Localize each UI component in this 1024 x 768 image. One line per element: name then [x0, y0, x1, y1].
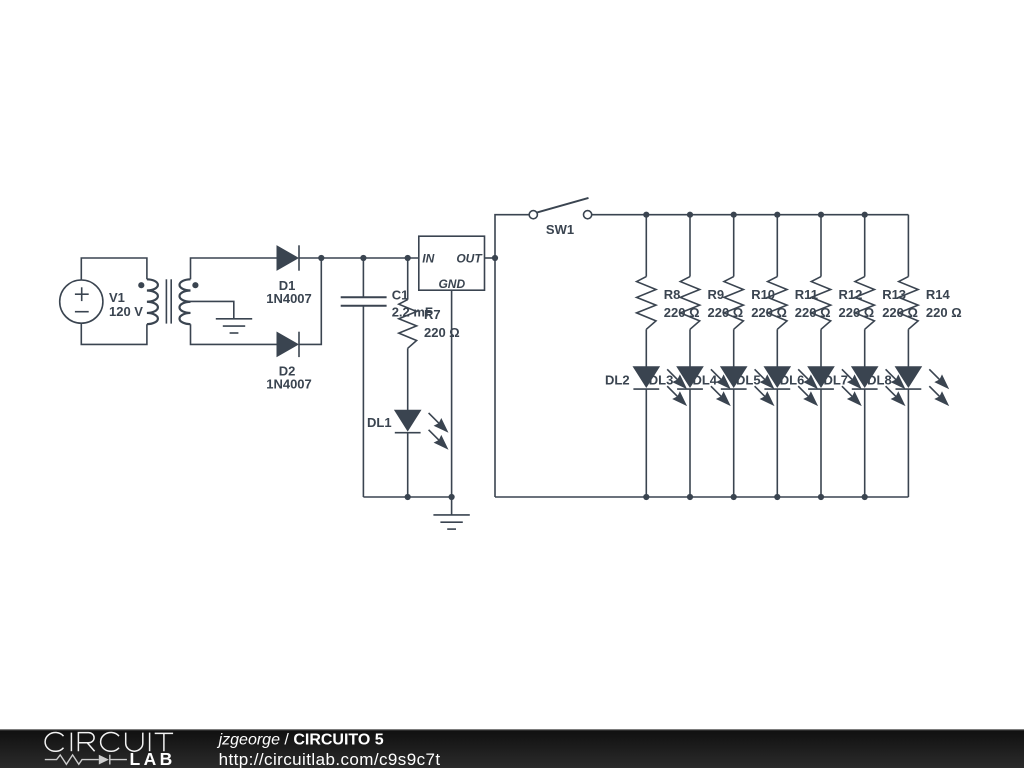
svg-text:R9: R9: [708, 287, 725, 302]
LED DL8: [896, 367, 950, 406]
wire branch 7 bottom: [907, 389, 909, 497]
wire branch 7 top: [907, 215, 909, 277]
wire bottom rail left section: [363, 496, 451, 498]
svg-text:SW1: SW1: [546, 222, 574, 237]
svg-text:DL5: DL5: [736, 373, 761, 388]
node bottom rail branch 5: [818, 494, 824, 500]
node bottom rail branch 6: [862, 494, 868, 500]
LED DL3: [677, 367, 731, 406]
svg-text:LAB: LAB: [130, 749, 176, 768]
wire transformer center tap: [191, 301, 234, 318]
wire R7 top stub: [407, 258, 409, 300]
wire ground stub: [451, 497, 453, 515]
LED DL6: [808, 367, 862, 406]
wire V1 top to transformer primary: [81, 258, 147, 280]
resistor R12: [811, 277, 830, 330]
svg-text:IN: IN: [422, 251, 434, 265]
svg-text:R11: R11: [795, 287, 818, 302]
wire branch 1 middle: [645, 329, 647, 366]
CircuitLab logo: CIRCUIT wordmark: [45, 733, 173, 752]
svg-text:OUT: OUT: [456, 251, 483, 265]
resistor R11: [768, 277, 787, 330]
wire secondary top to D1 anode: [191, 258, 278, 279]
capacitor C1: [341, 297, 387, 306]
svg-text:1N4007: 1N4007: [266, 377, 312, 392]
CircuitLab logo: resistor-diode squiggle: [45, 755, 127, 765]
wire branch 2 bottom: [689, 389, 691, 497]
node DL1 bottom junction: [405, 494, 411, 500]
voltage regulator U1 box: [419, 236, 485, 290]
wire branch 5 middle: [820, 329, 822, 366]
wire regulator GND pin down: [451, 290, 453, 497]
LED DL5: [764, 367, 818, 406]
wire branch 3 top: [733, 215, 735, 277]
node R7 top junction: [405, 255, 411, 261]
node top rail branch 5: [818, 212, 824, 218]
svg-text:R8: R8: [664, 287, 681, 302]
resistor R8: [637, 277, 656, 330]
svg-text:DL8: DL8: [867, 373, 892, 388]
wire branch 5 bottom: [820, 389, 822, 497]
wire C1 bottom stub: [362, 306, 364, 497]
wire branch 3 bottom: [733, 389, 735, 497]
wire top rail LED array: [592, 214, 909, 216]
svg-text:DL1: DL1: [367, 415, 392, 430]
node top rail branch 6: [862, 212, 868, 218]
svg-text:220 Ω: 220 Ω: [926, 305, 962, 320]
wire D2 cathode up to node: [299, 258, 321, 344]
LED DL4: [721, 367, 775, 406]
resistor R14: [899, 277, 918, 330]
wire C1 top stub: [362, 258, 364, 297]
svg-text:1N4007: 1N4007: [266, 291, 312, 306]
transformer secondary phase dot: [192, 282, 198, 288]
node top rail branch 2: [687, 212, 693, 218]
ground (transformer center tap): [216, 319, 252, 333]
wire branch 2 middle: [689, 329, 691, 366]
wire branch 1 bottom: [645, 389, 647, 497]
svg-text:120 V: 120 V: [109, 304, 143, 319]
node GND junction: [449, 494, 455, 500]
svg-text:DL4: DL4: [692, 373, 717, 388]
wire branch 4 bottom: [776, 389, 778, 497]
node OUT junction: [492, 255, 498, 261]
node C1 top junction: [360, 255, 366, 261]
svg-text:DL6: DL6: [780, 373, 805, 388]
wire branch 4 middle: [776, 329, 778, 366]
transformer primary coil: [147, 279, 158, 324]
wire bottom rail LED array: [495, 496, 908, 498]
wire branch 2 top: [689, 215, 691, 277]
LED DL2: [633, 367, 687, 406]
node bottom rail branch 3: [731, 494, 737, 500]
node bottom rail branch 2: [687, 494, 693, 500]
switch SW1: [529, 198, 592, 219]
node bottom rail branch 1: [643, 494, 649, 500]
wire branch 1 top: [645, 215, 647, 277]
diode D2: [277, 332, 299, 357]
resistor R9: [680, 277, 699, 330]
node junction rectified rail: [318, 255, 324, 261]
wire branch 4 top: [776, 215, 778, 277]
node bottom rail branch 4: [774, 494, 780, 500]
wire branch 5 top: [820, 215, 822, 277]
node top rail branch 4: [774, 212, 780, 218]
footer bar: [0, 729, 1024, 768]
svg-text:jzgeorge / CIRCUITO 5: jzgeorge / CIRCUITO 5: [217, 732, 384, 749]
svg-text:GND: GND: [438, 277, 465, 291]
wire secondary bottom to D2 anode: [191, 324, 278, 344]
svg-text:R7: R7: [424, 307, 441, 322]
wire riser OUT node to SW1: [495, 215, 529, 497]
wire R7 to DL1: [407, 348, 409, 410]
ground (main): [433, 515, 469, 529]
wire V1 bottom to transformer primary: [81, 323, 147, 344]
svg-text:V1: V1: [109, 290, 125, 305]
resistor R10: [724, 277, 743, 330]
transformer primary phase dot: [138, 282, 144, 288]
wire rectified rail to regulator IN: [321, 257, 419, 259]
transformer core: [166, 279, 171, 323]
svg-text:DL3: DL3: [649, 373, 674, 388]
wire branch 3 middle: [733, 329, 735, 366]
svg-text:http://circuitlab.com/c9s9c7t: http://circuitlab.com/c9s9c7t: [219, 750, 441, 768]
svg-text:DL2: DL2: [605, 373, 630, 388]
node top rail branch 1: [643, 212, 649, 218]
LED DL7: [852, 367, 906, 406]
wire DL1 to bottom rail: [407, 433, 409, 497]
resistor R7: [399, 300, 417, 349]
wire branch 6 bottom: [864, 389, 866, 497]
wire branch 6 top: [864, 215, 866, 277]
svg-text:R14: R14: [926, 287, 951, 302]
wire regulator OUT pin: [485, 257, 496, 259]
svg-text:220 Ω: 220 Ω: [424, 325, 460, 340]
node top rail branch 3: [731, 212, 737, 218]
svg-text:DL7: DL7: [823, 373, 848, 388]
LED DL1: [395, 410, 449, 449]
voltage source V1: [60, 280, 103, 323]
wire branch 7 middle: [907, 329, 909, 366]
wire D1 cathode to node: [299, 257, 321, 259]
diode D1: [277, 245, 299, 270]
transformer secondary coil: [180, 279, 191, 324]
wire branch 6 middle: [864, 329, 866, 366]
resistor R13: [855, 277, 874, 330]
